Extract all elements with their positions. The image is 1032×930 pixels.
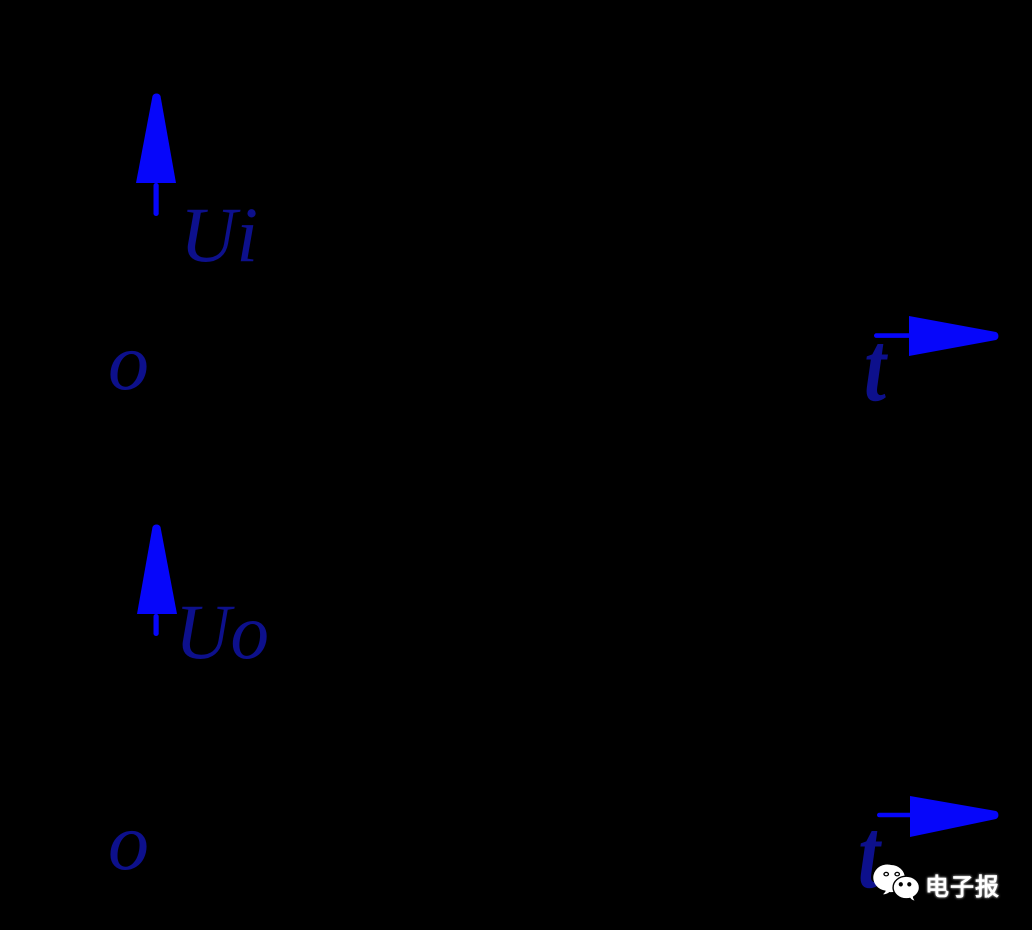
axis arrow t (horizontal, lower graph) (877, 796, 998, 837)
logo text 电子报 (925, 867, 1000, 902)
svg-text:o: o (108, 316, 149, 407)
svg-text:t: t (864, 311, 889, 422)
axis arrow Ui (vertical, upper graph) (136, 94, 176, 216)
svg-text:Uo: Uo (175, 588, 269, 675)
svg-text:o: o (108, 796, 149, 887)
svg-text:Ui: Ui (180, 191, 258, 278)
axis arrow t (horizontal, upper graph) (874, 316, 998, 356)
axis arrow Uo (vertical, lower graph) (137, 525, 177, 636)
WeChat logo icon (873, 864, 919, 900)
svg-text:t: t (858, 798, 883, 909)
